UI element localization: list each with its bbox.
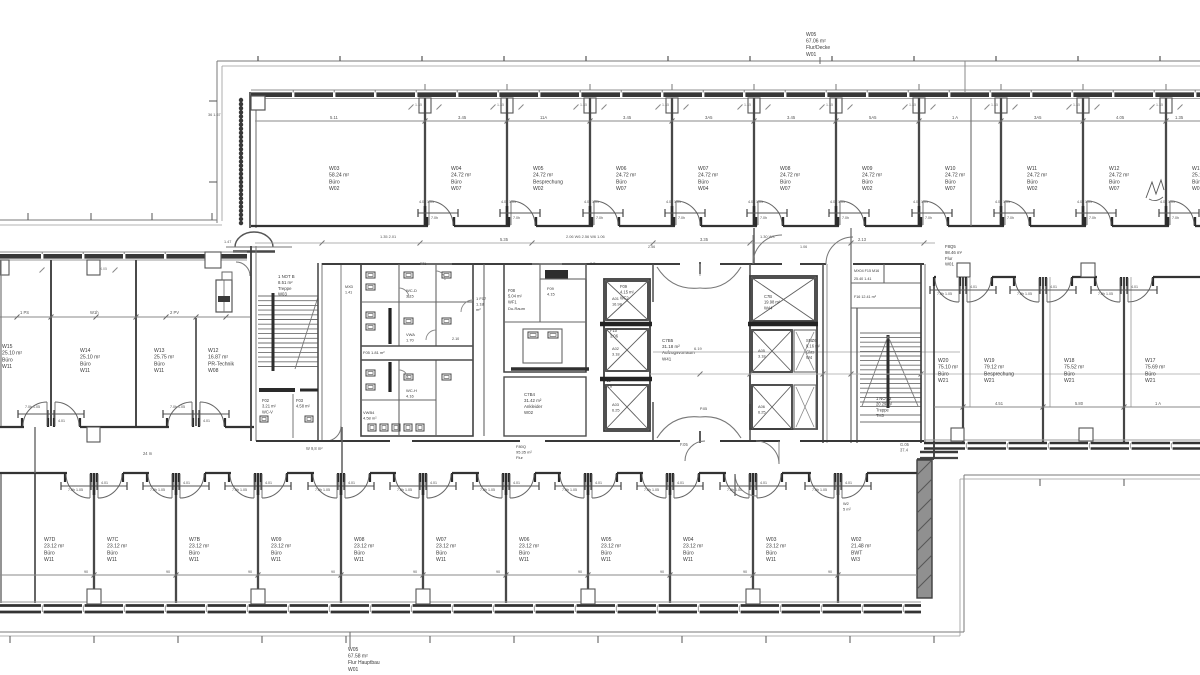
svg-text:4.01: 4.01	[970, 285, 977, 289]
core bottom corridor door arc	[756, 441, 779, 464]
svg-text:W11: W11	[107, 557, 117, 563]
elevator A2	[606, 329, 648, 371]
left wing south pillar stub	[87, 427, 100, 442]
svg-text:4.01: 4.01	[183, 481, 190, 485]
cross wall at grid x748	[753, 228, 755, 264]
svg-text:3.15: 3.15	[406, 294, 415, 299]
svg-text:20.29 m²: 20.29 m²	[876, 402, 893, 407]
elevator A3	[606, 385, 648, 429]
top wing west end wall	[249, 92, 251, 228]
svg-text:W04: W04	[698, 186, 709, 192]
svg-text:5.35: 5.35	[500, 237, 509, 242]
core corridor dimension line	[255, 242, 935, 244]
svg-text:7.0h: 7.0h	[678, 216, 685, 220]
svg-text:9.16 m²: 9.16 m²	[806, 344, 821, 349]
svg-text:4.01 1.01: 4.01 1.01	[1077, 200, 1092, 204]
svg-text:W6: W6	[590, 262, 596, 266]
svg-text:7.0h: 7.0h	[1089, 216, 1096, 220]
svg-text:90: 90	[578, 570, 582, 574]
svg-text:Büro: Büro	[616, 179, 627, 185]
svg-text:67.06 m²: 67.06 m²	[806, 39, 826, 45]
wc block inner verticals	[398, 264, 400, 346]
left wing west edge wall	[0, 260, 2, 426]
svg-text:67.58 m²: 67.58 m²	[348, 654, 368, 660]
svg-text:WC-V: WC-V	[262, 409, 273, 414]
svg-text:4.01 1.01: 4.01 1.01	[913, 200, 928, 204]
svg-text:4.01 1.01: 4.01 1.01	[995, 200, 1010, 204]
bottom wing G05 niche wall	[837, 474, 839, 512]
wc fixtures row2	[366, 312, 375, 318]
svg-text:F80Q: F80Q	[516, 444, 526, 449]
svg-text:23.12 m²: 23.12 m²	[44, 544, 64, 550]
bottom wing top wall	[0, 472, 67, 474]
svg-text:W03: W03	[329, 166, 340, 172]
left wing door clusters	[47, 418, 49, 427]
left wing south wall	[0, 426, 24, 428]
boundary ticks left segment	[27, 213, 29, 220]
core cells above lobby	[540, 264, 586, 279]
svg-text:4.01: 4.01	[1131, 285, 1138, 289]
svg-text:3.35: 3.35	[700, 237, 709, 242]
svg-text:W07: W07	[698, 166, 709, 172]
top wing north window wall	[251, 89, 1200, 91]
corridor cross wall x342	[341, 427, 343, 473]
svg-text:Büro: Büro	[451, 179, 462, 185]
svg-text:37.4: 37.4	[900, 448, 909, 453]
left wing window dim marks	[40, 268, 45, 273]
svg-text:W7C: W7C	[107, 537, 119, 543]
top corridor door arc right1	[753, 235, 782, 264]
svg-text:F16 12.41 m²: F16 12.41 m²	[854, 295, 877, 299]
svg-text:19.98 m²: 19.98 m²	[764, 300, 781, 305]
bottom wing south window wall	[0, 601, 921, 603]
svg-text:4.01 1.01: 4.01 1.01	[748, 200, 763, 204]
svg-text:C7B4: C7B4	[524, 392, 536, 397]
svg-text:95.35 m²: 95.35 m²	[516, 450, 532, 455]
svg-text:7.0h 1.05: 7.0h 1.05	[1017, 292, 1032, 296]
svg-text:7.0h: 7.0h	[513, 216, 520, 220]
svg-text:W20: W20	[938, 358, 949, 364]
svg-text:7.0h 1.05: 7.0h 1.05	[937, 292, 952, 296]
svg-text:90: 90	[166, 570, 170, 574]
svg-text:W01: W01	[806, 52, 817, 58]
svg-text:75.10 m²: 75.10 m²	[938, 365, 958, 371]
svg-text:Büro: Büro	[1192, 179, 1200, 185]
svg-text:W4: W4	[806, 355, 813, 360]
svg-text:W11: W11	[683, 557, 693, 563]
svg-text:25.40 1.41: 25.40 1.41	[854, 277, 871, 281]
svg-text:7.0h 1.05: 7.0h 1.05	[812, 488, 827, 492]
core west wall stair1 enclosure	[250, 246, 252, 441]
svg-text:4.05: 4.05	[100, 267, 107, 271]
elevator A separator bar 1	[600, 322, 652, 327]
core top wall	[322, 263, 420, 265]
ante room inner walls	[504, 321, 586, 323]
svg-text:Flur/Decke: Flur/Decke	[806, 45, 830, 51]
svg-text:W2: W2	[843, 501, 849, 506]
elevator B3	[752, 385, 792, 429]
svg-text:1.35: 1.35	[1156, 103, 1163, 107]
wc door arcs extra	[436, 271, 445, 280]
svg-text:90: 90	[660, 570, 664, 574]
top wing partition walls	[424, 98, 426, 225]
bottom wing dimension chain	[0, 574, 917, 576]
svg-text:3A5: 3A5	[1034, 115, 1042, 120]
wc fixtures row3	[366, 370, 375, 376]
stair1 run diagonal	[295, 297, 318, 369]
svg-text:3.21 m²: 3.21 m²	[262, 404, 277, 409]
left wing window pillar stubs	[87, 260, 100, 275]
svg-text:1.35: 1.35	[497, 103, 504, 107]
svg-text:SNZ6: SNZ6	[806, 338, 817, 343]
corridor cross wall x35	[34, 427, 36, 473]
svg-text:1.06: 1.06	[800, 245, 807, 249]
svg-text:4.01: 4.01	[430, 481, 437, 485]
svg-text:4.01: 4.01	[677, 481, 684, 485]
svg-text:W06: W06	[616, 166, 627, 172]
mid-right window pillar stubs	[951, 428, 964, 441]
svg-text:F09: F09	[620, 284, 628, 289]
svg-text:24.72 m²: 24.72 m²	[945, 173, 965, 179]
svg-text:31.18 m²: 31.18 m²	[662, 344, 680, 349]
svg-text:W21: W21	[1064, 378, 1075, 384]
svg-text:1 F07: 1 F07	[476, 296, 487, 301]
svg-text:4.01: 4.01	[101, 481, 108, 485]
svg-text:W7B: W7B	[189, 537, 201, 543]
svg-text:24.72 m²: 24.72 m²	[1027, 173, 1047, 179]
top corridor door arc right2	[826, 237, 853, 264]
svg-text:W06: W06	[519, 537, 530, 543]
svg-text:23.12 m²: 23.12 m²	[601, 544, 621, 550]
svg-text:7.0h 1.05: 7.0h 1.05	[480, 488, 495, 492]
svg-text:5A5: 5A5	[869, 115, 877, 120]
svg-text:A02: A02	[612, 346, 619, 351]
svg-text:W11: W11	[80, 368, 90, 374]
svg-text:W18: W18	[1064, 358, 1075, 364]
top wing window dimension marks	[409, 105, 414, 110]
entry vestibule door arc	[236, 262, 250, 276]
svg-text:1 NOT B: 1 NOT B	[278, 274, 295, 279]
svg-text:90: 90	[743, 570, 747, 574]
svg-text:W41: W41	[662, 356, 672, 361]
lobby bottom double door arcs	[657, 417, 700, 438]
svg-text:Büro: Büro	[780, 179, 791, 185]
svg-text:F08: F08	[508, 288, 516, 293]
svg-text:24.72 m²: 24.72 m²	[533, 173, 553, 179]
svg-text:Büro: Büro	[1027, 179, 1038, 185]
svg-text:7.0h: 7.0h	[1172, 216, 1179, 220]
svg-text:W04: W04	[683, 537, 694, 543]
hatched insulation strip at entry	[239, 100, 243, 227]
stair1 center rail	[272, 293, 275, 371]
svg-text:A01: A01	[612, 296, 619, 301]
svg-text:4.01 1.01: 4.01 1.01	[830, 200, 845, 204]
svg-text:W01: W01	[1192, 186, 1200, 192]
svg-text:F02: F02	[262, 398, 270, 403]
wc bottom fixture row	[368, 424, 376, 431]
svg-text:Büro: Büro	[1145, 371, 1156, 377]
wc block outer walls	[361, 264, 473, 436]
svg-text:C7B: C7B	[764, 294, 772, 299]
svg-text:W11: W11	[189, 557, 199, 563]
svg-text:4.01 1.01: 4.01 1.01	[666, 200, 681, 204]
svg-text:90: 90	[828, 570, 832, 574]
svg-text:1.41: 1.41	[345, 290, 352, 294]
elevator A1	[606, 281, 648, 320]
svg-text:Aufzugsvorraum: Aufzugsvorraum	[662, 350, 695, 355]
svg-text:11A: 11A	[540, 115, 547, 120]
svg-text:Büro: Büro	[683, 550, 694, 556]
svg-text:W21: W21	[938, 378, 949, 384]
mid-right dimension chain	[934, 406, 1200, 408]
core strip door arc	[326, 426, 341, 441]
svg-text:16.98: 16.98	[612, 302, 622, 307]
svg-text:Treppe: Treppe	[278, 286, 292, 291]
svg-text:W08: W08	[354, 537, 365, 543]
core right cells top	[851, 282, 921, 284]
svg-text:W21: W21	[984, 378, 995, 384]
svg-text:W13: W13	[1192, 166, 1200, 172]
bottom wing inner door wall	[735, 474, 757, 496]
svg-text:W 9,8 m²: W 9,8 m²	[306, 446, 323, 451]
svg-text:2.13: 2.13	[858, 237, 867, 242]
svg-text:1.35: 1.35	[1073, 103, 1080, 107]
svg-text:23.12 m²: 23.12 m²	[189, 544, 209, 550]
svg-text:W11: W11	[154, 368, 164, 374]
svg-text:P.05: P.05	[700, 407, 707, 411]
svg-text:1 PS: 1 PS	[20, 310, 29, 315]
svg-text:8.51 m²: 8.51 m²	[278, 280, 293, 285]
core strip wall x341	[340, 264, 342, 441]
wc door arcs	[399, 288, 409, 298]
svg-text:4.01 1.01: 4.01 1.01	[501, 200, 516, 204]
mid-right door clusters	[959, 277, 961, 286]
svg-text:F.05: F.05	[680, 442, 688, 447]
svg-text:4.01 1.01: 4.01 1.01	[419, 200, 434, 204]
site boundary left line	[216, 61, 218, 223]
svg-text:W12: W12	[1109, 166, 1120, 172]
mid-right stubs above wall	[957, 263, 970, 277]
svg-text:23.12 m²: 23.12 m²	[354, 544, 374, 550]
svg-text:23.12 m²: 23.12 m²	[683, 544, 703, 550]
svg-text:16.87 m²: 16.87 m²	[208, 355, 228, 361]
top wing dimension chain	[255, 120, 1200, 122]
boundary ticks bottom-right	[1039, 479, 1041, 486]
svg-text:7.0h 1.05: 7.0h 1.05	[562, 488, 577, 492]
stair1 lower cell wall	[292, 394, 294, 438]
boundary connector at x965	[964, 61, 966, 92]
svg-text:W01: W01	[945, 262, 954, 267]
entry canopy arc	[235, 232, 273, 247]
svg-text:W11: W11	[2, 364, 12, 370]
left wing dimension chain	[0, 316, 250, 318]
svg-text:Büro: Büro	[80, 361, 91, 367]
svg-text:4.01: 4.01	[265, 481, 272, 485]
svg-text:Büro: Büro	[766, 550, 777, 556]
svg-text:W11: W11	[44, 557, 54, 563]
svg-text:4.01: 4.01	[58, 419, 65, 423]
svg-text:Büro: Büro	[354, 550, 365, 556]
svg-text:A06: A06	[758, 404, 765, 409]
svg-text:W19: W19	[984, 358, 995, 364]
svg-text:2.10: 2.10	[452, 337, 459, 341]
svg-text:TH3: TH3	[876, 413, 884, 418]
svg-text:98.46 m²: 98.46 m²	[945, 250, 963, 255]
svg-text:W02: W02	[851, 537, 862, 543]
svg-text:Flur Hauptbau: Flur Hauptbau	[348, 660, 380, 666]
svg-text:1.35: 1.35	[744, 103, 751, 107]
svg-text:7.0h: 7.0h	[760, 216, 767, 220]
svg-text:4.01: 4.01	[845, 481, 852, 485]
svg-text:Büro: Büro	[436, 550, 447, 556]
bottom wing east-top step	[917, 458, 934, 460]
svg-text:3.45: 3.45	[787, 115, 796, 120]
svg-text:F03: F03	[296, 398, 304, 403]
svg-text:W13: W13	[154, 348, 165, 354]
svg-text:W09: W09	[862, 166, 873, 172]
svg-text:4.01 1.01: 4.01 1.01	[584, 200, 599, 204]
svg-text:W1h: W1h	[90, 310, 99, 315]
svg-text:4.16: 4.16	[406, 394, 415, 399]
svg-text:3.18: 3.18	[758, 354, 766, 359]
svg-text:Besprechung: Besprechung	[984, 371, 1014, 377]
svg-text:7.0h 1.05: 7.0h 1.05	[25, 405, 40, 409]
svg-text:WC-H: WC-H	[406, 388, 417, 393]
svg-text:4.01: 4.01	[760, 481, 767, 485]
ante room dark header	[545, 270, 568, 279]
svg-text:W07: W07	[780, 186, 791, 192]
svg-text:Büro: Büro	[329, 179, 340, 185]
svg-text:W11: W11	[436, 557, 446, 563]
svg-text:Büro: Büro	[2, 357, 13, 363]
svg-text:W11: W11	[766, 557, 776, 563]
svg-text:79.12 m²: 79.12 m²	[984, 365, 1004, 371]
stair1 treads	[258, 295, 318, 297]
svg-text:W/3: W/3	[851, 557, 860, 563]
svg-text:W44: W44	[764, 305, 773, 310]
svg-text:4.01: 4.01	[595, 481, 602, 485]
wc dark stack bar lower	[388, 362, 391, 392]
svg-text:F09: F09	[547, 286, 555, 291]
svg-text:W21: W21	[1145, 378, 1156, 384]
left wing shaft closet	[216, 280, 232, 312]
svg-text:23.12 m²: 23.12 m²	[436, 544, 456, 550]
svg-text:A05: A05	[758, 348, 765, 353]
svg-text:5 m²: 5 m²	[843, 507, 851, 512]
svg-text:1 A: 1 A	[952, 115, 958, 120]
site boundary top line	[217, 60, 1200, 62]
svg-text:W03: W03	[278, 292, 287, 297]
mid-right band top wall	[934, 276, 936, 278]
annotation leader bottom	[349, 632, 351, 648]
svg-text:BWT: BWT	[851, 550, 862, 556]
svg-text:1.35: 1.35	[991, 103, 998, 107]
left wing north window wall	[0, 251, 247, 253]
svg-text:25.75 m²: 25.75 m²	[154, 355, 174, 361]
svg-text:W07: W07	[436, 537, 447, 543]
site boundary left-wing top line	[0, 219, 217, 221]
svg-text:3A5: 3A5	[705, 115, 713, 120]
svg-text:Büro: Büro	[271, 550, 282, 556]
svg-text:24.72 m²: 24.72 m²	[698, 173, 718, 179]
ante room fixtures	[528, 332, 538, 338]
svg-text:6.25: 6.25	[758, 410, 766, 415]
stair2 west wall	[856, 308, 858, 443]
svg-text:4.51: 4.51	[995, 401, 1004, 406]
top wing corner pillar	[251, 96, 265, 110]
svg-text:Treppe: Treppe	[876, 407, 890, 412]
svg-text:Büro: Büro	[1109, 179, 1120, 185]
svg-text:7.0h 1.05: 7.0h 1.05	[644, 488, 659, 492]
svg-text:VWA: VWA	[406, 332, 415, 337]
svg-text:WF1: WF1	[508, 299, 517, 304]
svg-text:1.35: 1.35	[826, 103, 833, 107]
elevator A separator bar 2	[600, 377, 652, 382]
core grid wall x823	[822, 264, 824, 443]
svg-text:4.01: 4.01	[203, 419, 210, 423]
ante dark band	[511, 367, 589, 371]
svg-text:90: 90	[331, 570, 335, 574]
svg-text:Ankleider: Ankleider	[524, 404, 543, 409]
svg-text:MX04 F15 M16: MX04 F15 M16	[854, 269, 879, 273]
svg-text:W11: W11	[271, 557, 281, 563]
svg-text:3.45: 3.45	[458, 115, 467, 120]
svg-text:23.12 m²: 23.12 m²	[271, 544, 291, 550]
svg-text:Büro: Büro	[44, 550, 55, 556]
svg-text:Besprechung: Besprechung	[533, 179, 563, 185]
svg-text:1.47: 1.47	[224, 240, 231, 244]
svg-text:4.05: 4.05	[1116, 115, 1125, 120]
svg-text:Büro: Büro	[601, 550, 612, 556]
top wing corridor door clusters	[426, 217, 428, 226]
mid-right west wall	[933, 277, 935, 458]
site boundary bottom line	[0, 631, 964, 633]
svg-text:4.15 m²: 4.15 m²	[620, 290, 635, 295]
svg-text:24 m: 24 m	[143, 451, 153, 456]
svg-text:75.69 m²: 75.69 m²	[1145, 365, 1165, 371]
svg-text:7.0h: 7.0h	[842, 216, 849, 220]
svg-text:7.0h 1.05: 7.0h 1.05	[1098, 292, 1113, 296]
svg-text:4.01: 4.01	[1050, 285, 1057, 289]
svg-text:W11: W11	[519, 557, 529, 563]
corner dark stack	[920, 451, 958, 454]
core lobby floor tick	[699, 264, 701, 276]
svg-text:7.0h 1.05: 7.0h 1.05	[68, 488, 83, 492]
top wing corridor wall south	[251, 225, 428, 227]
stair2 center rail	[887, 335, 890, 408]
svg-text:7.0h 1.05: 7.0h 1.05	[150, 488, 165, 492]
svg-text:Du-Raum: Du-Raum	[508, 306, 526, 311]
svg-text:7.0h 1.05: 7.0h 1.05	[397, 488, 412, 492]
svg-text:W07: W07	[616, 186, 627, 192]
wc fixtures row1	[366, 272, 375, 278]
svg-text:W01: W01	[348, 667, 359, 673]
bottom wing partitions	[34, 474, 36, 603]
svg-text:W08: W08	[208, 368, 219, 374]
wc block inner horizontals	[361, 301, 473, 303]
svg-text:5.80: 5.80	[1075, 401, 1084, 406]
svg-text:W7D: W7D	[44, 537, 56, 543]
svg-text:W12: W12	[208, 348, 219, 354]
lobby dimension	[653, 351, 960, 353]
svg-text:25.13 m²: 25.13 m²	[1192, 173, 1200, 179]
wc corridor strip east	[483, 264, 485, 436]
svg-text:W09: W09	[271, 537, 282, 543]
bottom wing west cut wall	[0, 474, 2, 603]
svg-text:23.12 m²: 23.12 m²	[107, 544, 127, 550]
svg-text:Büro: Büro	[862, 179, 873, 185]
svg-text:7.0h 1.05: 7.0h 1.05	[170, 405, 185, 409]
